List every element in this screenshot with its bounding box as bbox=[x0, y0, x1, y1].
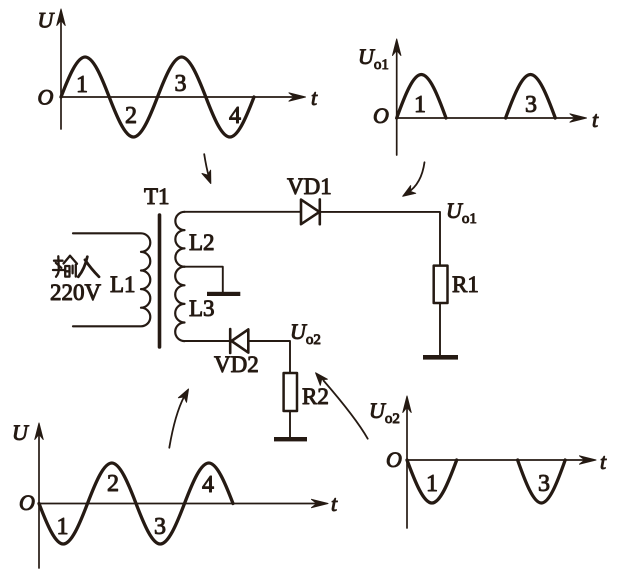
svg-text:4: 4 bbox=[229, 103, 241, 129]
svg-text:O: O bbox=[373, 103, 389, 128]
B hump 1 bbox=[397, 75, 446, 119]
svg-text:1: 1 bbox=[57, 514, 69, 540]
waveform graph B: output Uo1 vs t (upper right) bbox=[393, 39, 587, 155]
A vertical axis U bbox=[60, 15, 62, 129]
svg-text:1: 1 bbox=[76, 72, 88, 98]
svg-text:L1: L1 bbox=[110, 272, 136, 297]
B hump 3 bbox=[506, 75, 556, 119]
svg-text:Uo2: Uo2 bbox=[369, 398, 400, 427]
D hump 1 (negative) bbox=[407, 460, 457, 503]
ground at center tap bbox=[207, 292, 240, 296]
svg-text:O: O bbox=[386, 447, 402, 472]
svg-text:t: t bbox=[311, 85, 318, 110]
svg-text:2: 2 bbox=[125, 103, 137, 129]
D vertical axis bbox=[406, 402, 408, 528]
svg-text:t: t bbox=[331, 491, 338, 516]
transformer T1 core bbox=[158, 215, 162, 347]
waveform graph D: output Uo2 vs t (lower right) bbox=[403, 396, 596, 528]
ground under R1 bbox=[423, 355, 458, 360]
svg-text:Uo1: Uo1 bbox=[446, 198, 477, 227]
svg-text:U: U bbox=[38, 8, 56, 33]
svg-text:T1: T1 bbox=[144, 184, 170, 209]
svg-text:U: U bbox=[12, 420, 30, 445]
svg-text:4: 4 bbox=[202, 472, 214, 498]
svg-text:t: t bbox=[600, 449, 607, 474]
svg-text:3: 3 bbox=[525, 92, 537, 118]
D hump 3 (negative) bbox=[518, 460, 566, 503]
svg-text:t: t bbox=[592, 107, 599, 132]
svg-text:VD1: VD1 bbox=[287, 174, 332, 199]
waveform graph C: transformer input U vs t (lower left, inverted phase) bbox=[35, 423, 328, 568]
svg-text:3: 3 bbox=[175, 71, 187, 97]
C sine wave cycles 1-4 bbox=[39, 463, 233, 544]
A horizontal axis t bbox=[61, 96, 296, 98]
B vertical axis bbox=[396, 45, 398, 155]
diode VD1 bbox=[301, 199, 320, 224]
arrow from graph D up-left to R2 bbox=[316, 373, 368, 439]
C vertical axis U bbox=[38, 429, 40, 568]
wire: secondary bottom lead to VD2 bbox=[185, 340, 230, 342]
diode VD2 bbox=[230, 329, 248, 353]
label 输入 (input) hand-drawn strokes bbox=[53, 256, 99, 277]
svg-text:L3: L3 bbox=[189, 296, 215, 321]
primary winding L1 bbox=[73, 233, 150, 326]
resistor R1 bbox=[434, 266, 448, 303]
svg-text:3: 3 bbox=[538, 471, 550, 497]
B horizontal axis t bbox=[397, 117, 577, 119]
svg-text:R1: R1 bbox=[452, 272, 479, 297]
D horizontal axis t bbox=[407, 459, 586, 461]
svg-text:R2: R2 bbox=[302, 384, 329, 409]
svg-text:1: 1 bbox=[414, 92, 426, 118]
wire: VD2 to Uo2 corner, down to R2 bbox=[248, 341, 290, 373]
arrow from graph A down to circuit bbox=[202, 154, 211, 183]
svg-text:Uo2: Uo2 bbox=[290, 319, 321, 348]
wire: secondary top lead to VD1 bbox=[185, 211, 302, 213]
wire: R2 to ground bbox=[289, 411, 291, 438]
ground under R2 bbox=[274, 437, 307, 441]
svg-text:O: O bbox=[19, 490, 35, 515]
svg-text:L2: L2 bbox=[189, 230, 215, 255]
svg-text:1: 1 bbox=[426, 471, 438, 497]
secondary winding L2 bbox=[175, 212, 184, 267]
arrow from graph B down-left to circuit bbox=[403, 162, 425, 196]
wire: center tap to ground bbox=[185, 267, 223, 293]
resistor R2 bbox=[284, 373, 297, 411]
svg-text:2: 2 bbox=[107, 471, 119, 497]
secondary winding L3 bbox=[175, 267, 184, 341]
C horizontal axis t bbox=[39, 503, 318, 505]
svg-text:VD2: VD2 bbox=[214, 352, 259, 377]
wire: R1 to ground bbox=[439, 303, 441, 356]
A sine wave cycles 1-4 bbox=[61, 57, 254, 137]
waveform graph A: transformer input voltage U vs t (upper left) bbox=[57, 9, 306, 137]
svg-text:220V: 220V bbox=[50, 280, 102, 305]
svg-text:O: O bbox=[38, 85, 54, 110]
wire: VD1 to Uo1 corner, down to R1 bbox=[320, 212, 440, 266]
arrow from graph C up to circuit bbox=[169, 389, 188, 448]
svg-text:3: 3 bbox=[154, 514, 166, 540]
svg-text:Uo1: Uo1 bbox=[358, 44, 389, 73]
